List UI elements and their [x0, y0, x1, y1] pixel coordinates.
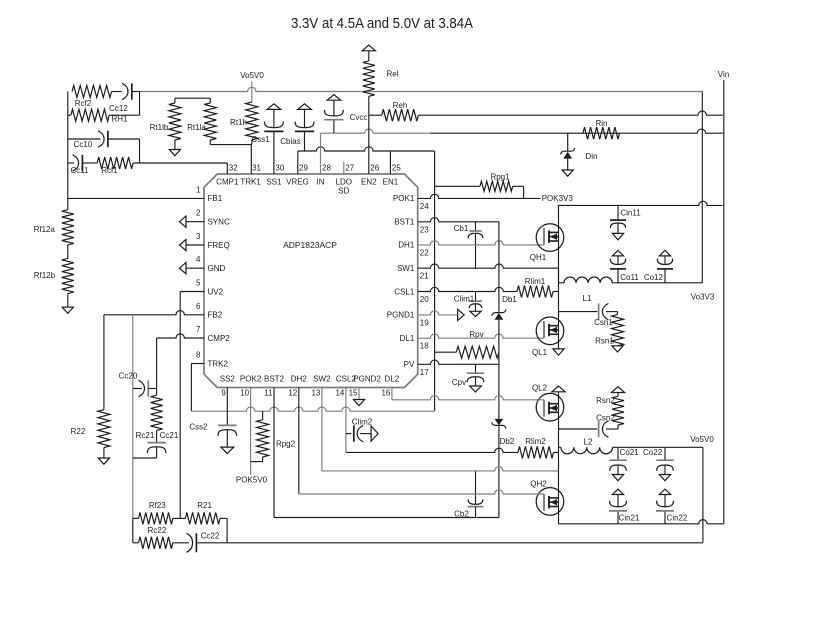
svg-text:10: 10: [240, 389, 249, 398]
capacitor Cc21: [147, 431, 179, 458]
svg-text:Rpv: Rpv: [469, 330, 483, 339]
svg-text:Vo5V0: Vo5V0: [690, 435, 714, 444]
svg-text:Css2: Css2: [189, 423, 208, 432]
svg-text:8: 8: [196, 351, 201, 360]
wire divider top bar: [175, 97, 210, 99]
svg-text:GND: GND: [208, 264, 226, 273]
svg-text:Css1: Css1: [251, 135, 270, 144]
svg-text:CMP1: CMP1: [216, 178, 239, 187]
svg-text:Rlim1: Rlim1: [525, 277, 546, 286]
svg-text:Rf12b: Rf12b: [34, 271, 56, 280]
svg-text:13: 13: [311, 389, 320, 398]
wire CSL2 column: [345, 388, 347, 453]
wire Cc21 to FB2 column: [133, 457, 157, 459]
svg-text:Cc10: Cc10: [74, 140, 93, 149]
svg-text:Vin: Vin: [718, 70, 729, 79]
svg-text:POK1: POK1: [393, 194, 415, 203]
resistor Rin: [583, 119, 620, 139]
resistor Rsn1: [595, 312, 623, 346]
svg-text:Rt1la: Rt1la: [187, 123, 206, 132]
resistor Rsn2: [596, 393, 624, 430]
wire CMP1 pin stub: [226, 163, 228, 174]
wire VREG-EN1 row: [298, 147, 435, 151]
capacitor Co21: [609, 447, 639, 480]
svg-text:Rcf2: Rcf2: [75, 99, 92, 108]
wire DH2 row to QH2 gate: [299, 490, 544, 494]
wire DL2 row to QL2 gate: [392, 396, 544, 400]
svg-text:11: 11: [264, 389, 273, 398]
svg-text:LDO: LDO: [336, 178, 352, 187]
svg-text:QH2: QH2: [530, 480, 547, 489]
diode Db1: [492, 295, 517, 320]
svg-text:3.3V at 4.5A and 5.0V at 3.84A: 3.3V at 4.5A and 5.0V at 3.84A: [291, 15, 473, 32]
resistor Reh: [369, 101, 419, 121]
svg-text:17: 17: [420, 368, 429, 377]
svg-text:DL2: DL2: [385, 375, 400, 384]
svg-text:TRK2: TRK2: [208, 359, 229, 368]
wire Vin top line: [558, 201, 723, 205]
svg-text:CSL1: CSL1: [394, 287, 415, 296]
svg-text:R22: R22: [71, 427, 86, 436]
transistor QL1: [532, 317, 564, 357]
wire TRK2 row: [191, 363, 204, 365]
ground flag PGND1: [458, 309, 465, 320]
node FB1 left vertical: [67, 92, 69, 199]
wire PV row: [418, 360, 499, 364]
svg-text:Cb2: Cb2: [454, 510, 469, 519]
svg-text:24: 24: [420, 202, 429, 211]
capacitor Cb2: [454, 471, 483, 519]
wire Vo3V3 column: [701, 92, 703, 283]
wire SS2 column: [226, 388, 228, 426]
svg-text:Db2: Db2: [500, 437, 515, 446]
svg-text:QL1: QL1: [532, 348, 548, 357]
svg-text:ADP1823ACP: ADP1823ACP: [283, 240, 337, 250]
svg-text:DL1: DL1: [400, 334, 415, 343]
svg-text:Vo5V0: Vo5V0: [240, 71, 264, 80]
ground flag above Rsn2: [611, 387, 624, 393]
wire Rf23 left vertical: [132, 518, 134, 542]
capacitor Cc20: [119, 372, 157, 397]
svg-text:9: 9: [221, 389, 226, 398]
wire DL1 row to QL1 gate: [418, 334, 544, 338]
inductor L2: [559, 438, 613, 454]
wire snubber2 branch: [559, 428, 598, 430]
svg-text:Rf12a: Rf12a: [34, 225, 56, 234]
wire TRK1 pin stub: [250, 145, 252, 174]
svg-text:7: 7: [196, 325, 201, 334]
svg-text:12: 12: [288, 389, 297, 398]
resistor R21: [185, 501, 227, 524]
ground flag above QL2: [552, 386, 565, 392]
capacitor Cc10: [68, 131, 140, 149]
ground below Din: [562, 170, 573, 176]
wire EN1 column: [389, 151, 391, 174]
svg-text:POK2: POK2: [240, 375, 262, 384]
wire VREG bus vertical: [434, 151, 436, 411]
svg-text:20: 20: [420, 295, 429, 304]
capacitor Cc22: [187, 532, 220, 553]
wire POK2 column: [250, 388, 252, 475]
wire DH1 row to QH1 gate: [418, 241, 544, 245]
svg-text:L1: L1: [583, 294, 592, 303]
svg-text:18: 18: [420, 342, 429, 351]
svg-text:26: 26: [370, 164, 379, 173]
svg-text:Clim2: Clim2: [352, 418, 373, 427]
transistor QH2: [530, 480, 564, 516]
resistor Rt1lb: [150, 98, 181, 149]
svg-text:QH1: QH1: [530, 253, 547, 262]
IC U1 pin name and pin number labels: [196, 164, 429, 398]
node POK3V3 label: [542, 194, 574, 203]
node Vo5V0 column: [240, 71, 264, 102]
capacitor Cc11: [68, 155, 89, 175]
wire FB2 row: [104, 311, 204, 315]
svg-text:Rpg1: Rpg1: [490, 173, 510, 182]
svg-text:Rt1lb: Rt1lb: [150, 123, 169, 132]
svg-text:Rf23: Rf23: [149, 501, 166, 510]
capacitor Cin21: [609, 489, 640, 524]
resistor Rlim1: [503, 277, 558, 298]
ground flag Clim2: [371, 426, 378, 441]
resistor Rpg2: [251, 411, 296, 461]
svg-text:BST2: BST2: [264, 375, 285, 384]
svg-text:21: 21: [420, 272, 429, 281]
pin 27 LDO-SD stub: [343, 162, 345, 175]
svg-text:Co11: Co11: [620, 273, 639, 282]
resistor Rcf2: [72, 86, 122, 109]
resistor Rt1h: [230, 102, 258, 145]
svg-text:Cin22: Cin22: [667, 513, 688, 522]
wire SW node column: [558, 268, 560, 349]
wire Db1 anode to PV node: [498, 320, 500, 419]
svg-text:Rsn2: Rsn2: [596, 396, 615, 405]
svg-text:Reh: Reh: [393, 101, 408, 110]
svg-text:22: 22: [420, 248, 429, 257]
wire Cc10-Rcf1 node: [139, 139, 141, 163]
wire SW1 row: [418, 264, 559, 268]
wire TRK2 column: [190, 364, 192, 412]
wire SW2 pin column: [321, 388, 323, 471]
wire Rlim2 row: [346, 448, 518, 452]
svg-text:Cc20: Cc20: [119, 372, 138, 381]
ground below Rsn1: [612, 346, 623, 352]
svg-text:Co21: Co21: [620, 448, 640, 457]
resistor RH1: [68, 109, 140, 123]
svg-text:30: 30: [275, 164, 284, 173]
svg-text:EN1: EN1: [383, 178, 399, 187]
diode Db2: [492, 419, 515, 446]
resistor Rc22: [133, 526, 189, 549]
wire comp right node: [139, 92, 141, 116]
svg-text:Cin21: Cin21: [619, 513, 640, 522]
svg-text:Cc11: Cc11: [70, 166, 89, 175]
wire CMP2 column: [156, 338, 158, 395]
svg-text:Cc22: Cc22: [201, 532, 220, 541]
svg-text:Rt1h: Rt1h: [230, 118, 247, 127]
wire FB2 comp column: [132, 315, 134, 519]
flag FREQ: [179, 239, 204, 250]
wire Vo5V0 column down: [702, 447, 704, 542]
svg-text:L2: L2: [584, 438, 593, 447]
flag GND: [179, 263, 204, 274]
svg-text:SD: SD: [338, 187, 349, 196]
svg-text:29: 29: [299, 164, 308, 173]
capacitor Cc12: [109, 83, 139, 113]
capacitor Co11: [610, 250, 639, 282]
ground flag above Rel: [362, 45, 375, 51]
svg-text:CMP2: CMP2: [208, 334, 231, 343]
capacitor Csn2: [596, 414, 618, 438]
svg-text:32: 32: [229, 164, 238, 173]
svg-text:PGND1: PGND1: [387, 311, 415, 320]
svg-text:Rc21: Rc21: [136, 431, 155, 440]
resistor Rel: [363, 51, 399, 115]
wire Db2 cathode down: [498, 425, 500, 517]
wire CSL1 row: [418, 287, 504, 291]
svg-text:PGND2: PGND2: [353, 375, 381, 384]
capacitor Clim1: [454, 292, 482, 317]
svg-text:Cc12: Cc12: [109, 104, 128, 113]
svg-text:6: 6: [196, 302, 201, 311]
wire Reh to Vin: [418, 111, 723, 115]
ground below Rt1lb: [169, 150, 180, 156]
wire Vo5V0 line right: [613, 446, 703, 448]
resistor Rpv: [435, 330, 499, 358]
svg-text:FB1: FB1: [208, 194, 223, 203]
wire PGND1 row: [418, 311, 458, 315]
wire TRK2-SS2-VREG row: [191, 407, 434, 411]
ground below PGND2: [353, 400, 364, 406]
resistor R22: [71, 315, 110, 458]
capacitor Css2: [189, 423, 236, 448]
node POK5V0 label: [236, 476, 268, 485]
svg-text:POK5V0: POK5V0: [236, 476, 268, 485]
node Vin label: [718, 70, 729, 79]
wire BST2 to Db2 row: [274, 517, 499, 519]
ground below QL1: [553, 349, 564, 355]
capacitor Cvcc: [324, 100, 367, 133]
wire Rf21 right vertical: [226, 518, 228, 542]
wire Vo5V0 bottom line: [196, 542, 703, 544]
wire QH1 drain-source bus: [558, 205, 560, 268]
svg-text:SYNC: SYNC: [208, 218, 230, 227]
svg-text:4: 4: [196, 255, 201, 264]
wire SW2 column: [558, 429, 560, 524]
svg-text:Rpg2: Rpg2: [276, 440, 296, 449]
svg-text:TRK1: TRK1: [240, 178, 261, 187]
wire Vin bottom line: [559, 520, 724, 524]
capacitor Cb1: [454, 222, 483, 268]
wire UV2 column: [179, 292, 181, 519]
svg-text:2: 2: [196, 209, 201, 218]
ground flag above Cvcc: [327, 95, 341, 101]
capacitor Clim2: [346, 418, 373, 442]
resistor Rf12b: [34, 245, 74, 307]
svg-text:SS2: SS2: [220, 375, 236, 384]
transistor QL2: [532, 384, 564, 422]
svg-text:RH1: RH1: [111, 115, 128, 124]
svg-text:Clim1: Clim1: [454, 295, 475, 304]
wire IN-Cvcc-Rin row: [321, 129, 723, 133]
wire Rt1la to TRK1 node: [210, 144, 251, 146]
wire QL2 source-drain bus: [558, 392, 560, 429]
svg-text:VREG: VREG: [286, 178, 309, 187]
resistor Rt1la: [187, 98, 216, 144]
svg-text:FB2: FB2: [208, 311, 223, 320]
capacitor Cin11: [610, 205, 641, 239]
svg-text:UV2: UV2: [208, 287, 224, 296]
capacitor Css1: [251, 109, 283, 174]
svg-text:DH1: DH1: [398, 241, 415, 250]
svg-text:16: 16: [381, 389, 390, 398]
svg-text:R21: R21: [197, 501, 212, 510]
svg-text:SW1: SW1: [397, 264, 415, 273]
svg-text:FREQ: FREQ: [208, 241, 230, 250]
svg-text:BST1: BST1: [394, 218, 415, 227]
svg-text:23: 23: [420, 225, 429, 234]
wire IN pin column: [320, 133, 322, 174]
capacitor Cbias: [280, 109, 314, 151]
inductor L1: [559, 277, 613, 303]
wire FB1 row: [68, 197, 204, 199]
ground below Rf12b: [62, 307, 73, 313]
svg-text:Vo3V3: Vo3V3: [691, 292, 715, 301]
resistor Rcf1: [82, 157, 227, 175]
svg-text:Rel: Rel: [386, 70, 398, 79]
wire CMP2 row: [157, 334, 204, 338]
resistor Rpg1: [435, 173, 524, 199]
resistor Rc21: [136, 395, 163, 442]
transistor QH1: [530, 224, 564, 262]
svg-text:Rlim2: Rlim2: [525, 437, 546, 446]
svg-text:EN2: EN2: [361, 178, 377, 187]
wire BST1 to Db1 cathode: [498, 222, 500, 313]
wire Vo3V3 rail top: [140, 87, 703, 91]
wire PGND2 stub: [358, 388, 360, 400]
wire EN2 column: [368, 115, 370, 174]
svg-text:3: 3: [196, 232, 201, 241]
svg-text:15: 15: [349, 389, 358, 398]
svg-text:IN: IN: [317, 178, 325, 187]
wire snubber1 branch: [559, 311, 598, 313]
IC U1 ADP1823ACP body: [204, 174, 418, 388]
wire UV2 row: [180, 291, 204, 293]
svg-text:SW2: SW2: [313, 375, 331, 384]
wire Vo3V3 line: [612, 282, 702, 284]
capacitor Cin22: [656, 489, 688, 524]
svg-text:PV: PV: [404, 360, 415, 369]
node Vo5V0 label right: [690, 435, 714, 444]
wire DH2 column: [298, 388, 300, 495]
svg-text:Cin11: Cin11: [620, 209, 641, 218]
svg-text:Rcf1: Rcf1: [101, 166, 118, 175]
wire SW2 row: [322, 467, 559, 471]
svg-text:Rin: Rin: [595, 119, 607, 128]
svg-text:POK3V3: POK3V3: [542, 194, 574, 203]
title text: [291, 15, 473, 32]
resistor Rlim2: [518, 437, 559, 458]
wire BST2 column: [273, 388, 275, 518]
resistor Rf23: [133, 501, 186, 524]
svg-text:Din: Din: [585, 152, 597, 161]
svg-text:Cpv: Cpv: [452, 378, 466, 387]
svg-text:Db1: Db1: [502, 295, 517, 304]
svg-text:Cvcc: Cvcc: [350, 113, 368, 122]
wire BST1 row: [418, 218, 499, 222]
svg-text:28: 28: [322, 164, 331, 173]
resistor Rf12a: [34, 198, 74, 245]
svg-text:Cc21: Cc21: [160, 431, 179, 440]
svg-text:Co22: Co22: [643, 448, 663, 457]
svg-text:Cbias: Cbias: [280, 137, 300, 146]
ground flag above Cbias: [298, 104, 312, 110]
svg-text:Cb1: Cb1: [454, 224, 469, 233]
svg-text:Rsn1: Rsn1: [595, 337, 614, 346]
svg-text:5: 5: [196, 279, 201, 288]
svg-text:SS1: SS1: [266, 178, 282, 187]
wire L1 left node: [558, 268, 560, 283]
diode Din: [561, 133, 598, 170]
node Vo3V3 label: [691, 292, 715, 301]
capacitor Co22: [643, 447, 674, 480]
wire POK1 row: [418, 194, 541, 198]
ground below R22: [98, 458, 109, 464]
wire Vin vertical: [723, 80, 725, 524]
svg-text:Rc22: Rc22: [148, 526, 167, 535]
svg-text:14: 14: [335, 389, 344, 398]
svg-text:31: 31: [252, 164, 261, 173]
svg-text:QL2: QL2: [532, 384, 548, 393]
svg-text:27: 27: [345, 164, 354, 173]
ground flag above Css1: [267, 104, 281, 110]
ground below Css2: [221, 447, 234, 453]
svg-text:DH2: DH2: [291, 375, 308, 384]
wire VREG jog: [297, 151, 299, 174]
wire DL2 column: [391, 388, 393, 400]
svg-text:1: 1: [196, 185, 201, 194]
capacitor Co12: [644, 250, 673, 282]
flag SYNC: [179, 216, 204, 227]
svg-text:19: 19: [420, 318, 429, 327]
svg-text:25: 25: [392, 164, 401, 173]
svg-text:Co12: Co12: [644, 273, 664, 282]
capacitor Csn1: [594, 303, 617, 327]
capacitor Cpv: [452, 364, 484, 392]
